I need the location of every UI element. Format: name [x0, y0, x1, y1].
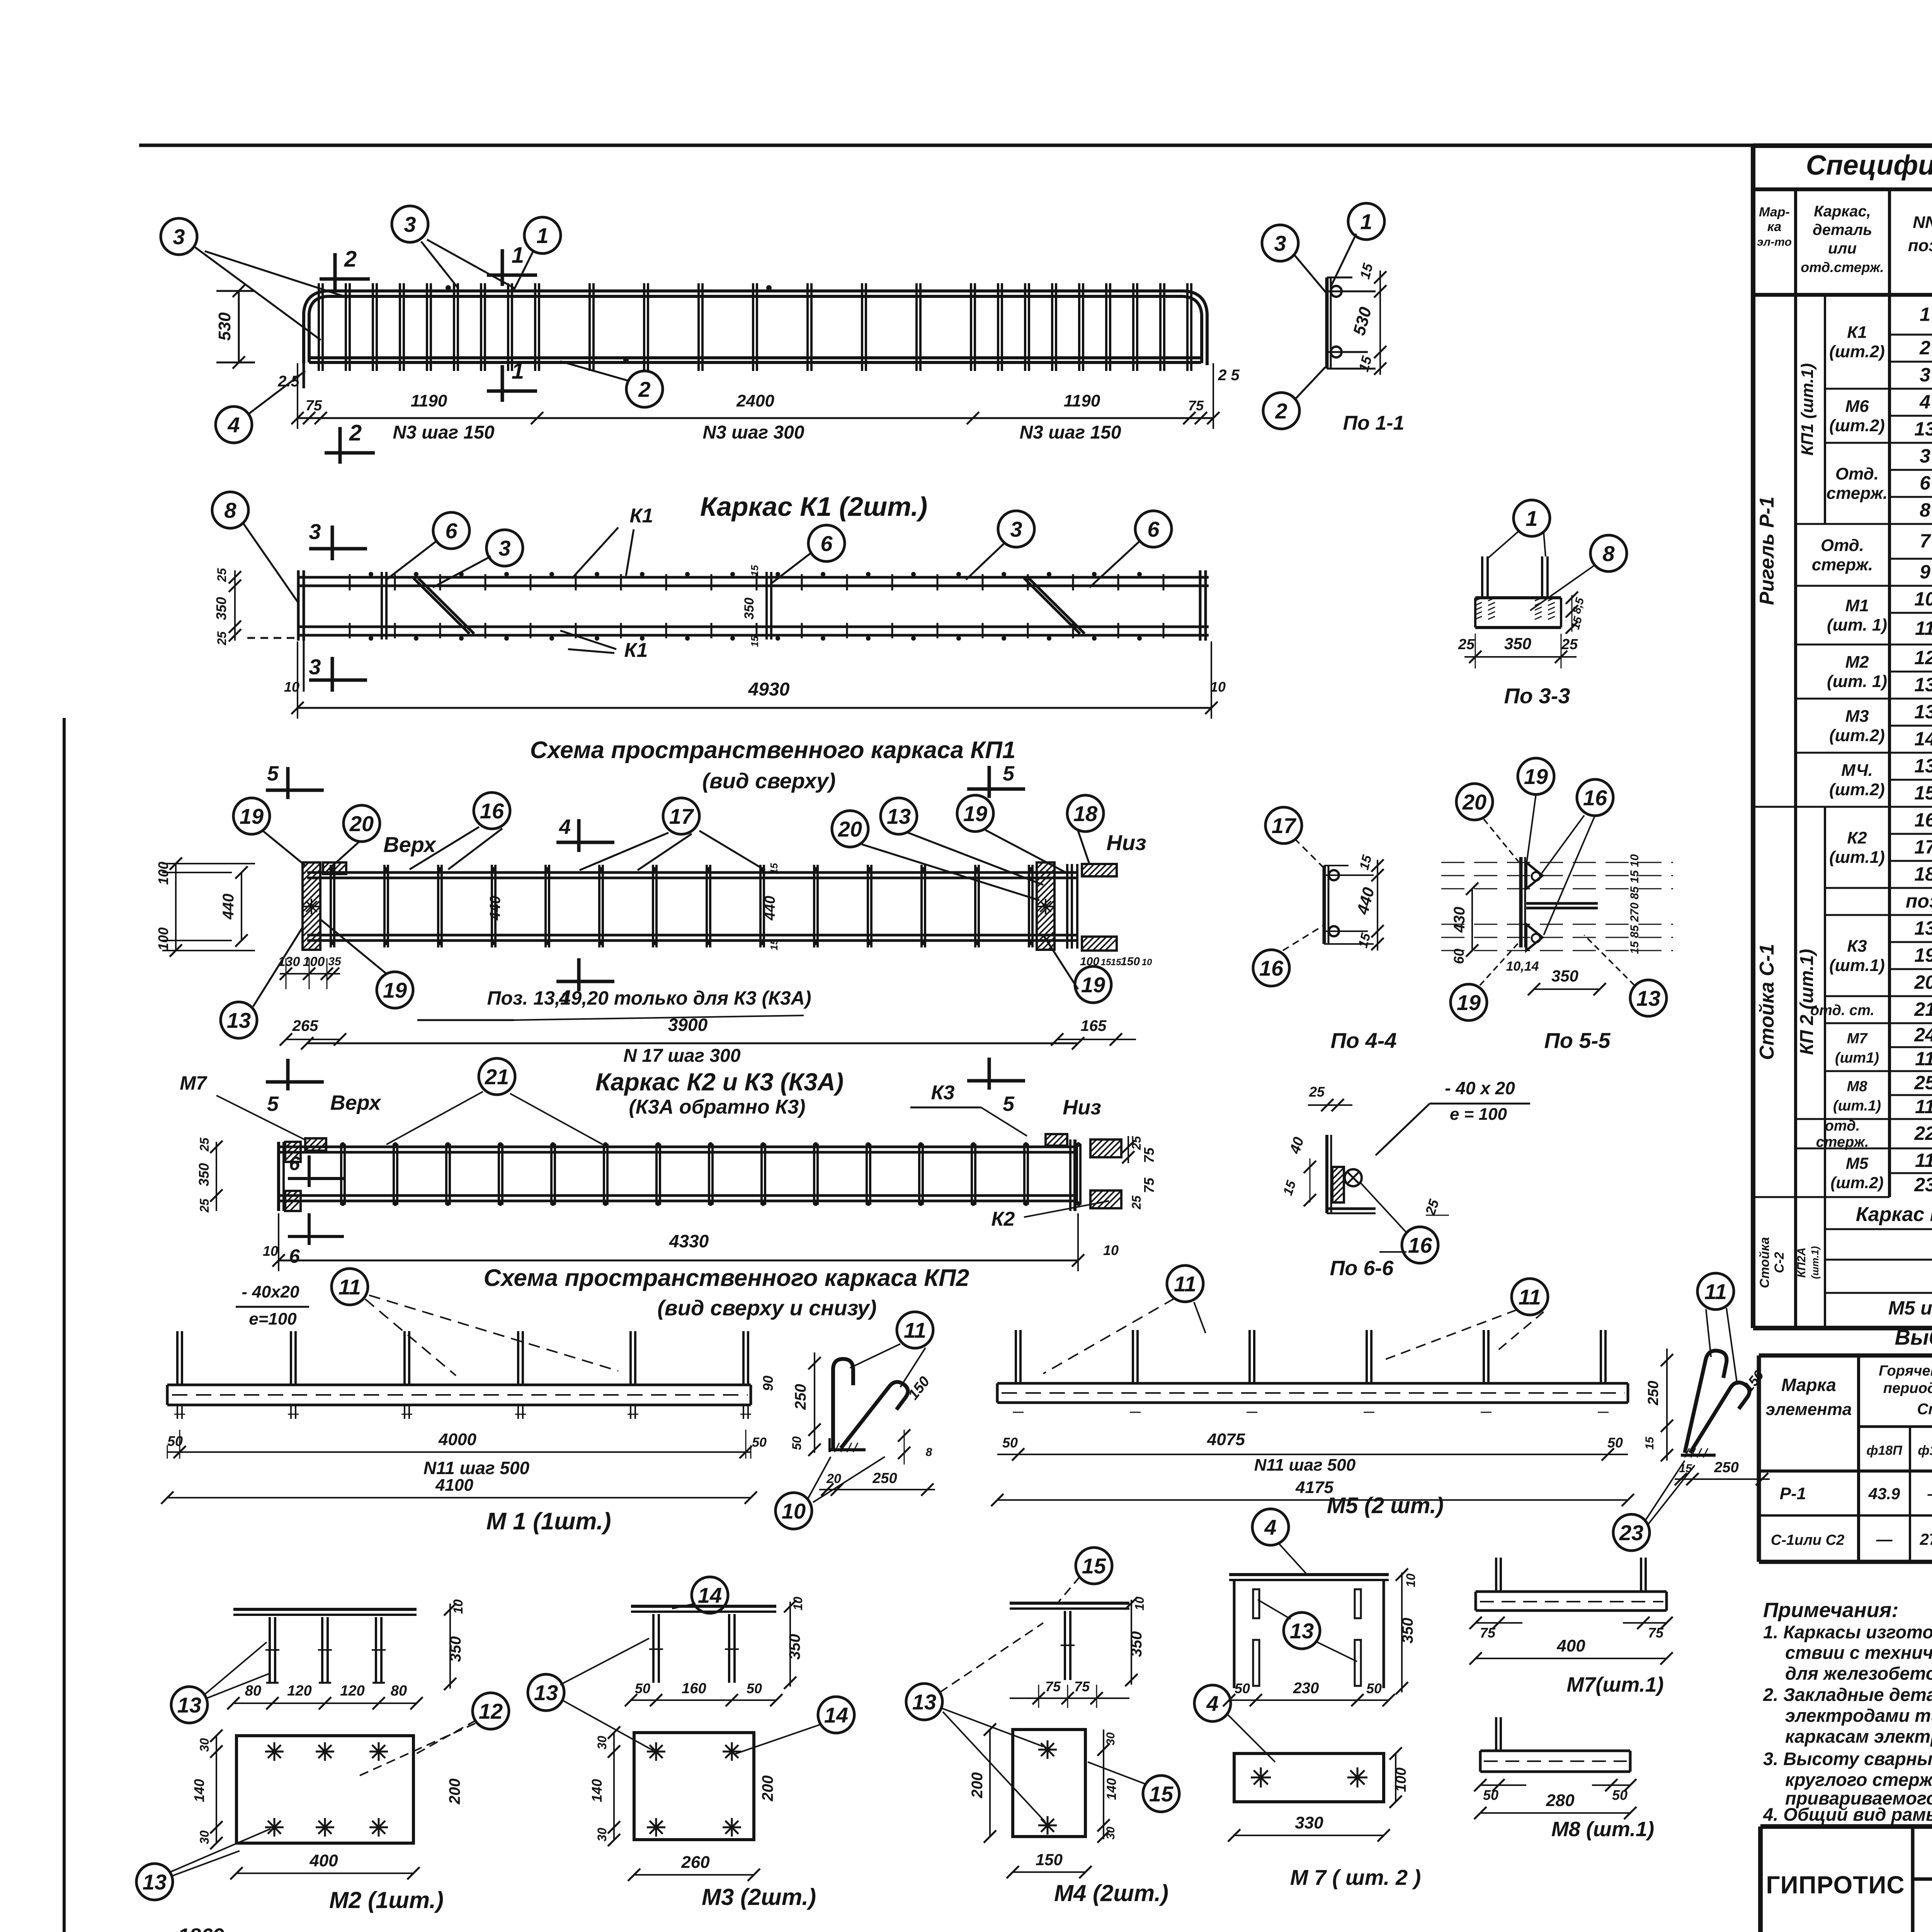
svg-text:3: 3 — [309, 519, 321, 544]
svg-text:Каркас К1 (2шт.): Каркас К1 (2шт.) — [700, 492, 927, 522]
svg-text:18: 18 — [1914, 863, 1932, 885]
svg-text:4100: 4100 — [435, 1476, 473, 1495]
svg-text:1. Каркасы изготовлять при п: 1. Каркасы изготовлять при помощи точечн… — [1763, 1622, 1932, 1642]
svg-text:Схема пространственного карк: Схема пространственного каркаса КП2 — [484, 1265, 969, 1291]
svg-text:25: 25 — [1914, 1072, 1932, 1094]
svg-text:Р-1: Р-1 — [1780, 1484, 1806, 1503]
svg-text:12: 12 — [1914, 647, 1932, 668]
svg-text:2: 2 — [1919, 337, 1930, 359]
svg-text:стерж.: стерж. — [1827, 484, 1888, 503]
svg-text:250: 250 — [872, 1470, 897, 1486]
svg-text:Стойка: Стойка — [1757, 1237, 1772, 1288]
svg-text:16: 16 — [1259, 956, 1284, 980]
svg-text:30: 30 — [595, 1828, 609, 1842]
svg-text:Низ: Низ — [1063, 1096, 1101, 1119]
svg-text:отд.стерж.: отд.стерж. — [1801, 259, 1884, 275]
svg-text:Ригель Р-1: Ригель Р-1 — [1756, 497, 1778, 605]
svg-text:80: 80 — [391, 1683, 407, 1699]
svg-text:16: 16 — [1914, 809, 1932, 831]
svg-text:90: 90 — [760, 1376, 776, 1391]
svg-text:отд.: отд. — [1825, 1118, 1860, 1134]
svg-text:NN: NN — [1913, 213, 1932, 232]
svg-text:КП2А: КП2А — [1795, 1247, 1808, 1277]
svg-text:С-1или С2: С-1или С2 — [1771, 1532, 1844, 1548]
svg-text:N 17 шаг 300: N 17 шаг 300 — [623, 1046, 740, 1066]
svg-text:230: 230 — [1293, 1680, 1319, 1697]
svg-text:120: 120 — [287, 1683, 311, 1699]
svg-text:19: 19 — [1457, 990, 1481, 1015]
svg-text:200: 200 — [969, 1772, 986, 1799]
svg-text:ГИПРОТИС: ГИПРОТИС — [1766, 1871, 1905, 1899]
svg-text:стерж.: стерж. — [1812, 555, 1873, 574]
svg-text:2: 2 — [349, 420, 362, 446]
svg-text:(шт.2): (шт.2) — [1829, 780, 1885, 799]
svg-text:16: 16 — [480, 799, 504, 823]
svg-text:2400: 2400 — [736, 391, 774, 410]
svg-text:160: 160 — [682, 1680, 706, 1697]
svg-text:100: 100 — [303, 954, 325, 969]
svg-text:350: 350 — [786, 1634, 803, 1660]
svg-text:50: 50 — [1607, 1435, 1623, 1451]
svg-text:165: 165 — [1081, 1017, 1107, 1034]
svg-text:1: 1 — [1526, 506, 1537, 531]
svg-text:50: 50 — [752, 1435, 767, 1450]
svg-text:13: 13 — [227, 1008, 251, 1032]
svg-text:13: 13 — [1914, 755, 1932, 777]
svg-text:10: 10 — [1914, 588, 1932, 610]
svg-text:50: 50 — [747, 1680, 762, 1696]
svg-text:Поз. 13,19,20 только для К3 (: Поз. 13,19,20 только для К3 (К3А) — [487, 987, 811, 1009]
svg-text:440: 440 — [220, 894, 237, 920]
svg-text:80: 80 — [245, 1683, 261, 1699]
svg-text:М1: М1 — [1845, 596, 1869, 615]
svg-text:3: 3 — [1274, 231, 1286, 255]
svg-text:250: 250 — [1645, 1381, 1662, 1405]
svg-text:Выборка стали на один элем: Выборка стали на один элемент в кг — [1895, 1325, 1932, 1349]
svg-text:15: 15 — [1111, 957, 1121, 968]
svg-text:13: 13 — [887, 804, 911, 828]
svg-text:11: 11 — [904, 1318, 926, 1342]
svg-text:2.5: 2.5 — [277, 373, 299, 390]
svg-text:6: 6 — [1920, 472, 1931, 494]
svg-text:2: 2 — [344, 247, 357, 272]
svg-text:КП 2 (шт.1): КП 2 (шт.1) — [1797, 949, 1817, 1055]
svg-text:50: 50 — [635, 1680, 650, 1696]
svg-text:25: 25 — [197, 1137, 211, 1152]
svg-text:поз.: поз. — [1906, 890, 1932, 912]
svg-text:К1: К1 — [630, 505, 653, 527]
svg-text:15: 15 — [1082, 1554, 1106, 1578]
svg-text:17: 17 — [1272, 813, 1297, 838]
svg-text:400: 400 — [309, 1851, 338, 1870]
svg-text:М7(шт.1): М7(шт.1) — [1566, 1673, 1663, 1696]
svg-text:16: 16 — [1583, 786, 1607, 810]
svg-text:140: 140 — [191, 1779, 207, 1802]
svg-text:30: 30 — [1104, 1732, 1117, 1745]
svg-text:4. Общий вид рамы и детали: 4. Общий вид рамы и детали даны на листе… — [1763, 1804, 1932, 1825]
svg-text:К2: К2 — [1847, 828, 1867, 847]
svg-text:Отд.: Отд. — [1835, 464, 1879, 483]
svg-text:или: или — [1828, 240, 1857, 257]
svg-text:М6: М6 — [1845, 397, 1869, 416]
svg-text:25: 25 — [1561, 636, 1578, 653]
svg-text:50: 50 — [1235, 1680, 1250, 1696]
svg-text:35: 35 — [328, 955, 342, 968]
svg-text:10: 10 — [263, 1243, 278, 1259]
svg-text:поз.: поз. — [1908, 236, 1932, 255]
svg-text:Спецификация арматуры на оди: Спецификация арматуры на один элемент — [1806, 150, 1932, 181]
svg-text:(вид сверху): (вид сверху) — [702, 769, 835, 793]
svg-text:140: 140 — [589, 1779, 605, 1802]
svg-text:3: 3 — [173, 224, 185, 249]
svg-text:25: 25 — [215, 568, 229, 582]
svg-text:М7: М7 — [180, 1072, 207, 1094]
svg-text:3: 3 — [1920, 445, 1930, 467]
svg-text:Низ: Низ — [1106, 830, 1146, 855]
svg-text:5: 5 — [267, 1092, 279, 1116]
svg-text:23: 23 — [1914, 1174, 1932, 1196]
svg-text:e=100: e=100 — [249, 1310, 297, 1328]
svg-text:350: 350 — [196, 1163, 212, 1186]
svg-text:25: 25 — [215, 631, 229, 646]
svg-text:25: 25 — [197, 1198, 211, 1213]
svg-text:13: 13 — [177, 1693, 201, 1717]
svg-text:10,14: 10,14 — [1506, 959, 1539, 974]
svg-text:период. проф.: период. проф. — [1883, 1380, 1932, 1396]
svg-text:50: 50 — [1483, 1787, 1498, 1803]
svg-text:Ст.5: Ст.5 — [1917, 1401, 1932, 1418]
svg-text:М2 (1шт.): М2 (1шт.) — [329, 1887, 444, 1913]
svg-text:4: 4 — [227, 413, 240, 437]
svg-text:—: — — [1876, 1530, 1893, 1548]
svg-text:15: 15 — [1149, 1782, 1173, 1806]
svg-text:7: 7 — [1920, 530, 1931, 552]
svg-text:(шт.1): (шт.1) — [1829, 956, 1885, 975]
svg-text:e = 100: e = 100 — [1450, 1105, 1507, 1124]
svg-text:10: 10 — [284, 679, 299, 695]
svg-text:N3 шаг 300: N3 шаг 300 — [702, 422, 804, 443]
svg-text:140: 140 — [1104, 1778, 1119, 1800]
svg-text:10: 10 — [782, 1499, 806, 1523]
svg-text:М 7 ( шт. 2 ): М 7 ( шт. 2 ) — [1290, 1865, 1421, 1889]
svg-text:1: 1 — [512, 359, 524, 384]
svg-text:25: 25 — [1458, 636, 1475, 653]
svg-text:13: 13 — [1914, 418, 1932, 440]
svg-text:6: 6 — [820, 531, 833, 556]
svg-text:эл-то: эл-то — [1757, 236, 1792, 248]
svg-text:К1: К1 — [624, 639, 648, 662]
svg-text:25: 25 — [1309, 1084, 1325, 1100]
svg-text:15: 15 — [749, 636, 760, 647]
svg-text:для железобетонных конструкц: для железобетонных конструкций (ТУ-73-53… — [1785, 1663, 1932, 1684]
svg-text:10: 10 — [1210, 679, 1226, 695]
svg-text:Примечания:: Примечания: — [1763, 1599, 1898, 1622]
svg-text:50: 50 — [1612, 1787, 1628, 1803]
svg-text:15 85 270 85 15 10: 15 85 270 85 15 10 — [1628, 854, 1641, 954]
svg-text:27.4: 27.4 — [1920, 1530, 1932, 1548]
svg-text:—: — — [1927, 1485, 1932, 1503]
svg-text:Каркас К2 и К3 (К3А): Каркас К2 и К3 (К3А) — [595, 1068, 844, 1096]
svg-text:200: 200 — [759, 1776, 776, 1802]
svg-text:200: 200 — [446, 1779, 463, 1805]
svg-text:330: 330 — [1295, 1813, 1323, 1832]
svg-text:19: 19 — [1081, 973, 1105, 997]
svg-text:530: 530 — [215, 312, 234, 341]
svg-text:1: 1 — [1920, 304, 1930, 325]
svg-text:15: 15 — [1914, 782, 1932, 804]
svg-text:Горячекатаная: Горячекатаная — [1879, 1363, 1932, 1379]
svg-text:250: 250 — [792, 1384, 809, 1410]
svg-text:1: 1 — [512, 243, 524, 268]
svg-text:М2: М2 — [1845, 653, 1869, 672]
svg-text:1: 1 — [1360, 209, 1372, 234]
svg-text:10: 10 — [1103, 1242, 1119, 1258]
svg-text:1190: 1190 — [1064, 391, 1100, 410]
svg-text:Стойка С-1: Стойка С-1 — [1756, 944, 1778, 1060]
svg-text:Схема пространственного карк: Схема пространственного каркаса КП1 — [530, 737, 1016, 764]
svg-text:43.9: 43.9 — [1868, 1485, 1900, 1503]
svg-text:75: 75 — [1141, 1147, 1157, 1163]
svg-text:М8: М8 — [1847, 1078, 1868, 1095]
svg-text:19: 19 — [1914, 944, 1932, 966]
svg-text:10: 10 — [1142, 957, 1152, 968]
svg-text:стерж.: стерж. — [1816, 1134, 1869, 1150]
svg-text:260: 260 — [681, 1853, 710, 1872]
svg-text:4: 4 — [559, 815, 571, 838]
svg-text:(шт.1): (шт.1) — [1829, 848, 1885, 867]
svg-text:15: 15 — [1643, 1436, 1656, 1450]
svg-text:13: 13 — [1914, 701, 1932, 723]
svg-text:430: 430 — [1451, 907, 1468, 933]
svg-text:75: 75 — [1480, 1625, 1496, 1641]
svg-text:14: 14 — [698, 1583, 722, 1607]
svg-text:18: 18 — [1073, 801, 1098, 826]
svg-text:КП1 (шт.1): КП1 (шт.1) — [1798, 363, 1817, 456]
svg-text:- 40x20: - 40x20 — [241, 1282, 299, 1301]
svg-text:К1: К1 — [1847, 323, 1867, 342]
svg-text:N11 шаг 500: N11 шаг 500 — [1254, 1456, 1356, 1475]
svg-text:11: 11 — [338, 1275, 361, 1299]
svg-text:3: 3 — [404, 212, 416, 236]
svg-text:21: 21 — [485, 1065, 509, 1089]
svg-text:М3: М3 — [1845, 707, 1869, 726]
svg-text:50: 50 — [167, 1433, 183, 1449]
svg-text:Каркас,: Каркас, — [1814, 203, 1871, 220]
svg-text:1190: 1190 — [411, 391, 447, 410]
svg-text:25: 25 — [1129, 1195, 1143, 1210]
svg-text:N11 шаг 500: N11 шаг 500 — [423, 1458, 530, 1478]
svg-text:11: 11 — [1915, 617, 1932, 639]
svg-text:50: 50 — [1002, 1435, 1018, 1451]
svg-text:13: 13 — [143, 1870, 167, 1894]
svg-text:N3 шаг 150: N3 шаг 150 — [393, 422, 494, 443]
svg-text:8: 8 — [1920, 499, 1930, 521]
svg-text:13: 13 — [1914, 674, 1932, 696]
svg-text:11: 11 — [1704, 1279, 1727, 1304]
svg-text:3: 3 — [309, 655, 321, 679]
svg-text:(шт.2): (шт.2) — [1829, 342, 1885, 361]
svg-text:19: 19 — [963, 801, 987, 826]
svg-text:12: 12 — [479, 1699, 503, 1723]
svg-text:По 1-1: По 1-1 — [1343, 412, 1405, 434]
svg-text:ка: ка — [1767, 219, 1782, 234]
svg-text:30: 30 — [1104, 1827, 1117, 1840]
svg-text:11: 11 — [1915, 1096, 1932, 1117]
svg-text:22: 22 — [1914, 1122, 1932, 1144]
svg-text:440: 440 — [762, 896, 778, 920]
svg-text:М5 (2 шт.): М5 (2 шт.) — [1327, 1493, 1444, 1518]
svg-text:5: 5 — [1003, 1092, 1015, 1116]
svg-text:С-2: С-2 — [1772, 1252, 1787, 1273]
svg-text:М 1 (1шт.): М 1 (1шт.) — [486, 1508, 611, 1535]
svg-text:19: 19 — [240, 804, 264, 828]
svg-text:каркасам электродами типа Э: каркасам электродами типа Э-42А. — [1785, 1726, 1932, 1747]
svg-text:75: 75 — [1188, 398, 1204, 413]
svg-text:6: 6 — [289, 1153, 300, 1174]
svg-text:280: 280 — [1546, 1791, 1575, 1810]
svg-text:М4 (2шт.): М4 (2шт.) — [1054, 1880, 1168, 1906]
svg-text:9: 9 — [1920, 561, 1930, 583]
svg-text:4000: 4000 — [438, 1430, 476, 1449]
svg-text:2: 2 — [1275, 399, 1287, 423]
svg-text:21: 21 — [1914, 998, 1932, 1020]
svg-text:10: 10 — [791, 1597, 805, 1611]
svg-text:К2: К2 — [992, 1208, 1015, 1230]
svg-text:элемента: элемента — [1766, 1400, 1852, 1419]
svg-text:400: 400 — [1556, 1636, 1585, 1655]
svg-text:(вид сверху и снизу): (вид сверху и снизу) — [657, 1296, 876, 1320]
svg-text:350: 350 — [1128, 1631, 1145, 1657]
svg-text:N3 шаг 150: N3 шаг 150 — [1019, 422, 1121, 443]
svg-text:19: 19 — [383, 978, 407, 1002]
svg-text:М3 (2шт.): М3 (2шт.) — [702, 1884, 816, 1910]
svg-text:2. Закладные детали изготов: 2. Закладные детали изготовлять при помо… — [1763, 1684, 1932, 1705]
svg-text:440: 440 — [487, 896, 503, 920]
svg-text:ф16П: ф16П — [1918, 1443, 1932, 1458]
svg-text:Марка: Марка — [1781, 1375, 1836, 1395]
svg-text:20: 20 — [826, 1471, 841, 1486]
svg-text:М8 (шт.1): М8 (шт.1) — [1551, 1818, 1654, 1841]
svg-text:ствии с техническими условиям: ствии с техническими условиями на сварну… — [1785, 1642, 1932, 1663]
svg-text:(шт.2): (шт.2) — [1829, 416, 1885, 435]
svg-text:75: 75 — [1045, 1679, 1061, 1694]
svg-text:Мар-: Мар- — [1759, 205, 1790, 219]
svg-text:3: 3 — [1920, 364, 1930, 386]
svg-text:К3: К3 — [1847, 937, 1867, 956]
svg-text:75: 75 — [1648, 1625, 1664, 1641]
svg-text:17: 17 — [1914, 836, 1932, 858]
svg-text:ф18П: ф18П — [1866, 1443, 1903, 1458]
svg-text:деталь: деталь — [1813, 221, 1872, 238]
svg-text:75: 75 — [1141, 1177, 1157, 1193]
svg-text:3. Высоту сварных швов пр: 3. Высоту сварных швов принимать равной … — [1763, 1748, 1932, 1769]
svg-text:По 4-4: По 4-4 — [1331, 1028, 1397, 1053]
svg-text:50: 50 — [1366, 1680, 1382, 1696]
svg-text:10: 10 — [1404, 1573, 1418, 1587]
svg-text:(шт.1): (шт.1) — [1809, 1246, 1821, 1279]
svg-text:6: 6 — [445, 519, 457, 543]
svg-text:4075: 4075 — [1207, 1430, 1245, 1449]
svg-text:4330: 4330 — [669, 1231, 709, 1251]
svg-text:265: 265 — [292, 1017, 318, 1034]
svg-text:(шт. 1): (шт. 1) — [1827, 616, 1887, 634]
svg-text:3: 3 — [498, 536, 510, 560]
svg-text:14: 14 — [1914, 728, 1932, 750]
svg-text:4: 4 — [1264, 1515, 1276, 1539]
svg-text:30: 30 — [197, 1830, 211, 1844]
svg-text:М5 и поз. 22 СМ. ПО С-1: М5 и поз. 22 СМ. ПО С-1 — [1888, 1297, 1932, 1319]
svg-text:60: 60 — [1451, 949, 1467, 964]
svg-text:2: 2 — [638, 377, 650, 401]
svg-text:19: 19 — [1524, 764, 1548, 789]
svg-text:Верх: Верх — [383, 832, 437, 857]
svg-text:10: 10 — [451, 1599, 466, 1614]
svg-text:4: 4 — [1206, 1691, 1218, 1716]
svg-text:отд. ст.: отд. ст. — [1810, 1002, 1874, 1019]
svg-text:- 40 x 20: - 40 x 20 — [1445, 1078, 1515, 1098]
svg-text:8: 8 — [1602, 541, 1615, 566]
svg-text:15: 15 — [768, 863, 780, 874]
svg-text:15: 15 — [749, 565, 760, 576]
svg-text:350: 350 — [1551, 967, 1578, 985]
svg-text:13: 13 — [1914, 917, 1932, 939]
svg-text:5: 5 — [267, 762, 279, 785]
svg-text:30: 30 — [197, 1738, 211, 1752]
svg-text:По 5-5: По 5-5 — [1544, 1028, 1611, 1053]
svg-text:4: 4 — [1919, 391, 1930, 413]
svg-text:М5: М5 — [1846, 1154, 1869, 1172]
svg-text:15: 15 — [1679, 1462, 1692, 1475]
svg-text:электродами типа Э-42. Закла: электродами типа Э-42. Закладные детали … — [1785, 1705, 1932, 1726]
svg-text:13: 13 — [912, 1690, 936, 1714]
svg-text:6: 6 — [1147, 517, 1160, 541]
svg-text:1869: 1869 — [178, 1924, 224, 1932]
svg-text:75: 75 — [1074, 1679, 1090, 1694]
svg-text:1: 1 — [536, 223, 548, 248]
svg-text:2 5: 2 5 — [1218, 367, 1240, 384]
svg-text:11: 11 — [1915, 1150, 1932, 1171]
svg-text:23: 23 — [1619, 1520, 1643, 1545]
svg-text:К3: К3 — [931, 1082, 955, 1104]
svg-text:350: 350 — [447, 1636, 464, 1662]
svg-text:20: 20 — [838, 817, 862, 841]
svg-text:14: 14 — [824, 1703, 848, 1727]
svg-text:По 6-6: По 6-6 — [1330, 1257, 1394, 1280]
svg-text:150: 150 — [1121, 955, 1140, 968]
svg-text:20: 20 — [349, 811, 374, 836]
svg-text:75: 75 — [306, 398, 322, 414]
svg-text:17: 17 — [669, 804, 694, 828]
svg-text:3: 3 — [1010, 517, 1022, 541]
svg-text:8: 8 — [224, 498, 236, 522]
svg-text:150: 150 — [1036, 1850, 1063, 1869]
svg-text:круглого стержня с плоскость: круглого стержня с плоскостью равной пол… — [1785, 1769, 1932, 1790]
svg-text:По 3-3: По 3-3 — [1504, 684, 1570, 708]
svg-text:11: 11 — [1915, 1048, 1932, 1070]
svg-text:250: 250 — [1714, 1459, 1738, 1476]
svg-text:13: 13 — [1636, 986, 1660, 1010]
svg-text:Верх: Верх — [330, 1091, 382, 1114]
svg-text:30: 30 — [595, 1736, 609, 1750]
svg-text:11: 11 — [1519, 1285, 1541, 1309]
svg-text:8: 8 — [926, 1446, 932, 1459]
svg-text:4930: 4930 — [748, 679, 790, 700]
svg-text:350: 350 — [213, 597, 229, 620]
svg-text:24: 24 — [1914, 1024, 1932, 1046]
svg-text:5: 5 — [1003, 762, 1015, 785]
svg-text:15: 15 — [1101, 957, 1111, 968]
svg-text:Отд.: Отд. — [1821, 536, 1864, 555]
